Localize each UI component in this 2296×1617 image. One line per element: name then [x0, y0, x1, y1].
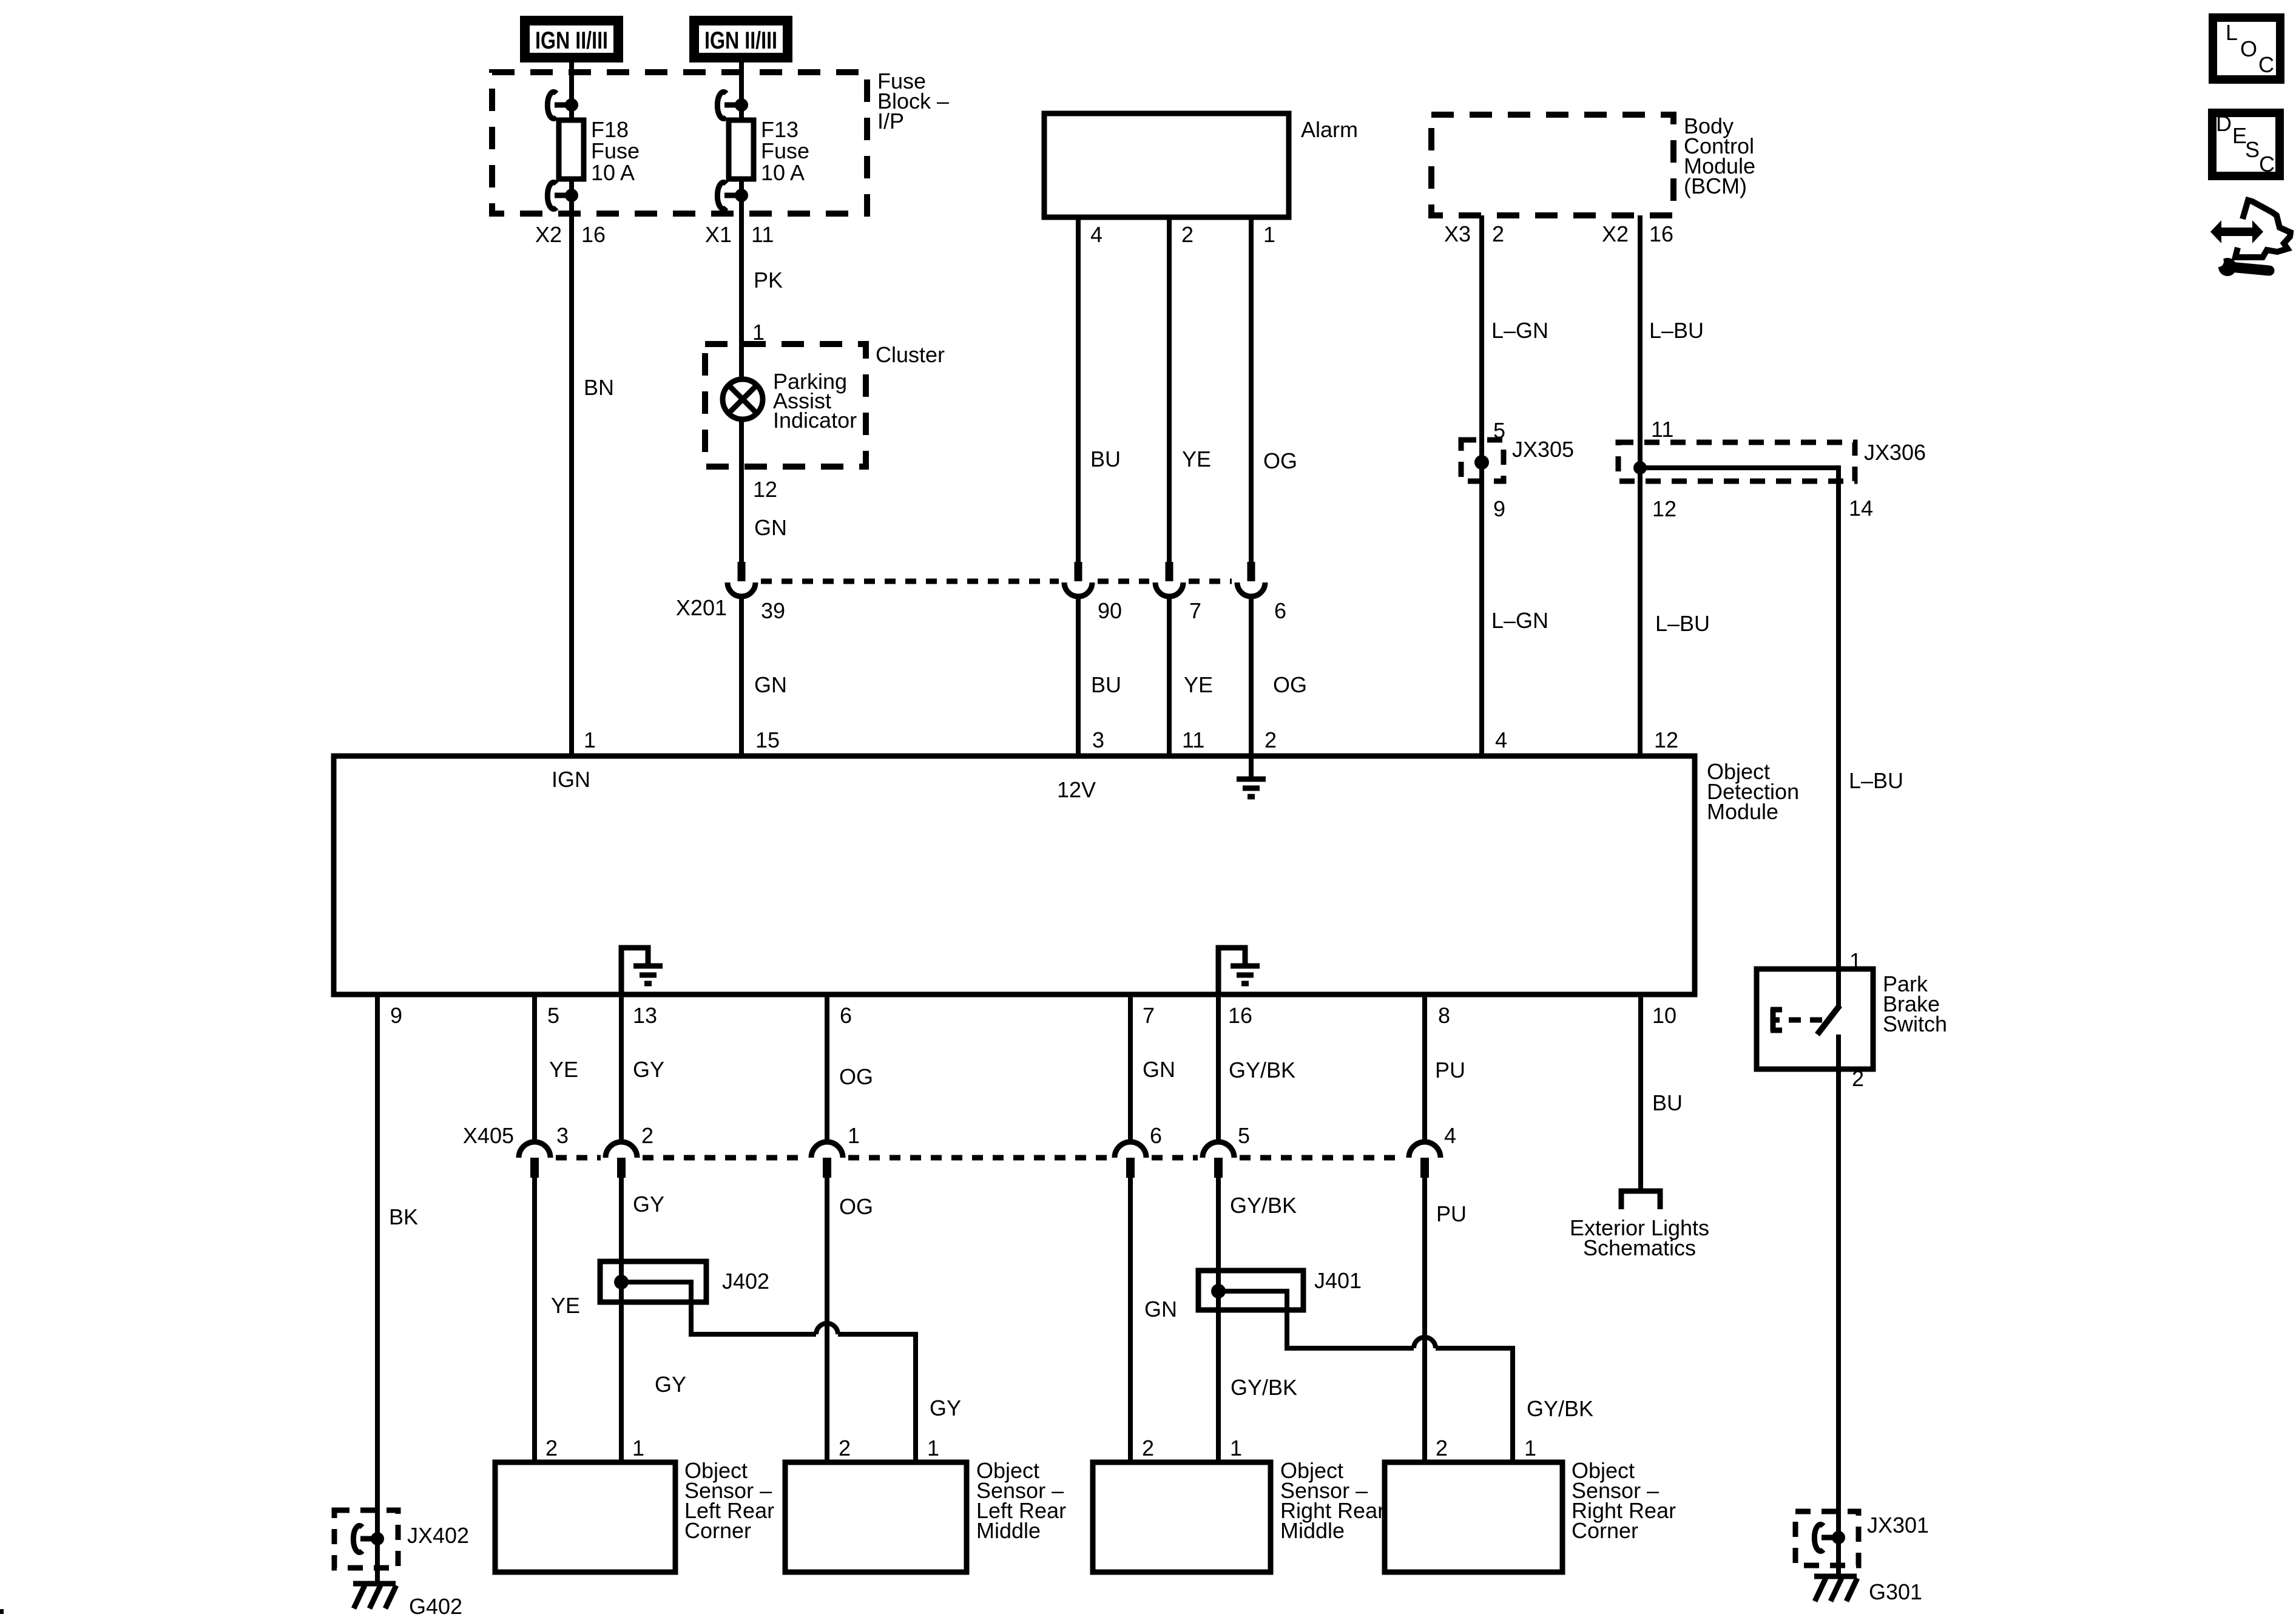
ground G301: [1814, 1576, 1922, 1604]
exterior lights schematics label: [1570, 1215, 1709, 1260]
svg-text:J402: J402: [722, 1269, 769, 1294]
svg-text:Switch: Switch: [1883, 1011, 1947, 1036]
svg-text:L–GN: L–GN: [1491, 318, 1548, 343]
in-line connector X201 junction pin 39: [728, 562, 755, 596]
svg-text:5: 5: [1238, 1123, 1250, 1148]
connector X201 junction pin 90: [1064, 562, 1122, 623]
fuse F18: [559, 120, 584, 179]
module pin 4 label: [1495, 727, 1507, 752]
svg-text:JX305: JX305: [1512, 437, 1574, 462]
JX306 pin 11 label: [1651, 417, 1673, 442]
parking assist indicator lamp: [723, 379, 763, 419]
svg-text:OG: OG: [1273, 672, 1307, 697]
wire lamp to cluster pin 12: [739, 419, 744, 562]
alarm module box: [1044, 113, 1358, 217]
svg-text:PU: PU: [1436, 1201, 1467, 1226]
svg-text:GY/BK: GY/BK: [1229, 1058, 1295, 1082]
svg-text:2: 2: [1852, 1066, 1864, 1091]
wire park brake switch to JX301: [1836, 1069, 1841, 1575]
cluster dashed outline: [705, 342, 945, 467]
svg-text:11: 11: [751, 222, 774, 247]
svg-text:GY/BK: GY/BK: [1527, 1396, 1593, 1421]
wire label GN: [754, 515, 787, 540]
object sensor left rear corner: [495, 1458, 774, 1572]
svg-text:X2: X2: [535, 222, 562, 247]
wire module pin 9 to JX402, label BK: [377, 994, 418, 1582]
power feed box IGN II/III (left): [525, 21, 618, 58]
svg-text:6: 6: [1274, 598, 1286, 623]
svg-text:16: 16: [1228, 1003, 1252, 1028]
module pin labels 3 11 2: [1092, 727, 1277, 752]
junction block JX402: [334, 1510, 469, 1568]
wire module pin 6 to X405, label OG: [827, 994, 873, 1143]
svg-text:2: 2: [1492, 221, 1504, 246]
wire X405 to sensor LR middle pin 2, label OG: [827, 1176, 873, 1462]
svg-text:C: C: [2259, 152, 2275, 177]
svg-text:4: 4: [1444, 1123, 1456, 1148]
splice J402: [600, 1261, 769, 1302]
module internal ground at pin 2: [1237, 756, 1266, 797]
svg-text:Indicator: Indicator: [773, 408, 857, 433]
splice J401: [1198, 1268, 1362, 1310]
svg-text:1: 1: [848, 1123, 860, 1148]
module internal label IGN: [552, 767, 590, 792]
wire X405 to splice J401, label GY/BK: [1218, 1176, 1297, 1462]
module pin 12 label: [1654, 727, 1678, 752]
svg-text:BN: BN: [584, 375, 614, 400]
svg-text:JX402: JX402: [407, 1523, 469, 1548]
svg-text:11: 11: [1651, 417, 1673, 442]
svg-text:BU: BU: [1652, 1090, 1683, 1115]
fuse F13: [729, 120, 754, 179]
svg-text:GN: GN: [754, 672, 787, 697]
connector X405 junction pin 2: [606, 1123, 653, 1178]
connector X201 junction pin 6: [1237, 562, 1286, 623]
svg-text:X3: X3: [1444, 221, 1471, 246]
svg-text:10: 10: [1652, 1003, 1676, 1028]
DESC nav icon: [2212, 111, 2280, 177]
body control module dashed outline: [1431, 115, 1673, 215]
wire label L-BU right side: [1849, 768, 1903, 793]
svg-text:14: 14: [1849, 496, 1873, 521]
park brake switch pin 1 label: [1849, 948, 1862, 973]
wire module pin 7 to X405, label GN: [1130, 994, 1175, 1143]
wire alarm pin 4, label BU: [1078, 217, 1121, 562]
wire module pin 8 to X405, label PU: [1425, 994, 1465, 1143]
svg-text:12V: 12V: [1057, 777, 1096, 802]
svg-text:YE: YE: [549, 1057, 578, 1082]
fuse F13 value label: [761, 117, 809, 185]
park brake switch box: [1757, 969, 1947, 1069]
wire alarm pin 1, label OG: [1251, 217, 1297, 562]
wire J401 branch to sensor RR corner pin 1, label GY/BK: [1218, 1291, 1593, 1462]
svg-text:IGN: IGN: [552, 767, 590, 792]
module pin 15 label: [755, 727, 780, 752]
svg-text:GY/BK: GY/BK: [1230, 1193, 1297, 1218]
clip terminal F18 bottom: [547, 183, 578, 209]
svg-text:L–BU: L–BU: [1849, 768, 1903, 793]
svg-text:X201: X201: [676, 595, 727, 620]
svg-text:2: 2: [1436, 1436, 1448, 1460]
svg-text:X405: X405: [463, 1123, 514, 1148]
svg-text:PK: PK: [754, 268, 783, 292]
svg-text:PU: PU: [1435, 1058, 1465, 1082]
svg-text:IGN II/III: IGN II/III: [535, 27, 608, 54]
wire JX306 branch to park brake switch: [1640, 468, 1838, 969]
svg-text:L: L: [2226, 20, 2238, 45]
wire X405 to sensor RR corner pin 2, label PU: [1425, 1176, 1467, 1462]
svg-text:BK: BK: [389, 1204, 418, 1229]
svg-text:GN: GN: [1143, 1057, 1175, 1082]
connector X405 label: [463, 1123, 514, 1148]
svg-text:IGN II/III: IGN II/III: [704, 27, 777, 54]
svg-text:Schematics: Schematics: [1583, 1235, 1696, 1260]
fuse F18 value label: [591, 117, 640, 185]
svg-text:D: D: [2216, 111, 2232, 136]
wire J402 branch to sensor LR middle pin 1, label GY: [621, 1282, 961, 1462]
wire IGN feed to fuse F18: [569, 58, 574, 120]
svg-text:L–BU: L–BU: [1649, 318, 1704, 343]
svg-text:Fuse: Fuse: [591, 138, 640, 163]
svg-text:Middle: Middle: [1280, 1518, 1345, 1543]
object sensor left rear middle: [785, 1458, 1066, 1572]
fuse block label: [877, 69, 949, 133]
wire label L-GN lower: [1491, 608, 1548, 633]
svg-text:GY: GY: [633, 1057, 664, 1082]
svg-text:OG: OG: [839, 1194, 873, 1219]
wire F18 to connector X2 pin 16: [569, 179, 574, 756]
svg-text:Middle: Middle: [976, 1518, 1041, 1543]
svg-text:1: 1: [752, 320, 765, 345]
svg-text:G301: G301: [1869, 1579, 1922, 1604]
svg-text:BU: BU: [1090, 447, 1121, 471]
power feed box IGN II/III (right): [694, 21, 788, 58]
svg-text:OG: OG: [1263, 448, 1297, 473]
park brake switch actuator E and dashes: [1771, 1008, 1829, 1031]
svg-text:2: 2: [1142, 1436, 1154, 1460]
svg-text:G402: G402: [409, 1594, 462, 1617]
svg-text:9: 9: [1493, 496, 1505, 521]
svg-text:X2: X2: [1602, 221, 1629, 246]
svg-text:12: 12: [1654, 727, 1678, 752]
svg-text:10 A: 10 A: [591, 160, 635, 185]
wire module pin 16 to X405, label GY/BK: [1218, 994, 1295, 1143]
fuse block I/P dashed outline: [492, 72, 867, 214]
svg-text:5: 5: [547, 1003, 559, 1028]
connector X405 junction pin 1: [811, 1123, 860, 1178]
svg-text:Fuse: Fuse: [761, 138, 809, 163]
svg-text:12: 12: [1652, 496, 1676, 521]
svg-text:7: 7: [1143, 1003, 1155, 1028]
connector X201 dashed line: [761, 579, 1232, 584]
svg-text:1: 1: [1524, 1436, 1536, 1460]
JX306 pin labels 12 14: [1652, 496, 1873, 521]
module bottom pin labels: [390, 1003, 1676, 1028]
svg-text:2: 2: [1264, 727, 1277, 752]
svg-text:15: 15: [755, 727, 780, 752]
parking assist indicator label: [773, 369, 857, 433]
connector X405 junction pin 5: [1203, 1123, 1250, 1178]
svg-text:16: 16: [581, 222, 606, 247]
repair instructions hand icon: [2210, 200, 2291, 276]
svg-text:S: S: [2245, 137, 2260, 162]
wire X201 to module pin 11, label YE: [1169, 595, 1213, 756]
svg-text:10 A: 10 A: [761, 160, 805, 185]
clip terminal F18 top: [547, 92, 578, 119]
svg-text:4: 4: [1090, 222, 1102, 247]
connector X405 dashed line: [556, 1155, 1404, 1161]
svg-text:GY: GY: [655, 1372, 686, 1397]
svg-text:39: 39: [761, 598, 785, 623]
junction block JX301: [1795, 1511, 1929, 1565]
svg-text:O: O: [2240, 36, 2257, 61]
wire X201 to module pin 15, label GN: [741, 595, 787, 756]
connector X405 junction pin 6: [1115, 1123, 1162, 1178]
svg-text:1: 1: [632, 1436, 644, 1460]
svg-text:GN: GN: [1144, 1297, 1177, 1322]
wire IGN feed to fuse F13: [739, 58, 744, 120]
park brake switch contacts and blade: [1817, 969, 1840, 1069]
svg-text:4: 4: [1495, 727, 1507, 752]
clip terminal F13 bottom: [717, 183, 748, 209]
junction block JX305: [1461, 437, 1574, 481]
wire label L-BU lower: [1655, 611, 1710, 636]
connector X405 junction pin 3: [519, 1123, 569, 1178]
svg-text:GY: GY: [930, 1396, 961, 1420]
svg-text:2: 2: [839, 1436, 851, 1460]
object detection module box: [334, 756, 1695, 994]
svg-text:2: 2: [545, 1436, 558, 1460]
svg-text:90: 90: [1098, 598, 1122, 623]
module internal ground near pin 13: [621, 948, 663, 994]
connector X405 junction pin 4: [1409, 1123, 1456, 1178]
svg-text:L–GN: L–GN: [1491, 608, 1548, 633]
svg-text:13: 13: [633, 1003, 657, 1028]
svg-text:8: 8: [1438, 1003, 1450, 1028]
park brake switch pin 2 label: [1852, 1066, 1864, 1091]
module pin 1 label: [584, 727, 596, 752]
svg-text:Cluster: Cluster: [876, 342, 945, 367]
svg-text:J401: J401: [1314, 1268, 1362, 1293]
connector X201 label: [676, 595, 785, 623]
svg-text:Alarm: Alarm: [1301, 117, 1358, 142]
wire X201 to module pin 2, label OG: [1251, 595, 1307, 756]
svg-text:2: 2: [641, 1123, 653, 1148]
connector label X2 | 16: [535, 222, 606, 247]
object sensor right rear middle: [1093, 1458, 1385, 1572]
sensor pin labels 2 1: [545, 1436, 1536, 1460]
wire X405 to sensor LR corner pin 2, label YE: [535, 1176, 580, 1462]
svg-text:1: 1: [1263, 222, 1275, 247]
svg-text:YE: YE: [1182, 447, 1211, 471]
svg-text:JX301: JX301: [1867, 1513, 1929, 1538]
svg-text:3: 3: [1092, 727, 1104, 752]
alarm pin labels 4 2 1: [1090, 222, 1275, 247]
svg-text:YE: YE: [1184, 672, 1213, 697]
clip terminal F13 top: [717, 92, 748, 119]
wire module pin 10 to off-page, label BU: [1641, 994, 1683, 1190]
svg-text:9: 9: [390, 1003, 402, 1028]
wire X405 to sensor RR middle pin 2, label GN: [1130, 1176, 1177, 1462]
module internal label 12V: [1057, 777, 1096, 802]
svg-text:2: 2: [1181, 222, 1194, 247]
svg-text:L–BU: L–BU: [1655, 611, 1710, 636]
body control module label: [1684, 113, 1755, 198]
JX305 pin 9 label: [1493, 496, 1505, 521]
svg-text:GY: GY: [633, 1192, 664, 1217]
svg-text:C: C: [2258, 52, 2274, 77]
svg-text:1: 1: [1230, 1436, 1242, 1460]
junction block JX306: [1618, 440, 1926, 481]
wire F13 to cluster, label PK: [741, 179, 783, 379]
wire BCM X3-2 to JX305, label L-GN: [1482, 215, 1548, 756]
LOC nav icon: [2213, 18, 2280, 79]
wire label BN: [584, 375, 614, 400]
object detection module label: [1707, 759, 1799, 824]
wire module pin 13 to X405, label GY: [621, 994, 664, 1143]
svg-text:BU: BU: [1091, 672, 1121, 697]
svg-text:Corner: Corner: [684, 1518, 751, 1543]
wire X201 to module pin 3, label BU: [1078, 595, 1121, 756]
svg-text:6: 6: [840, 1003, 852, 1028]
svg-text:12: 12: [753, 477, 777, 502]
svg-text:Module: Module: [1707, 799, 1778, 824]
svg-text:7: 7: [1189, 598, 1201, 623]
module internal ground near pin 16: [1218, 948, 1260, 994]
svg-text:I/P: I/P: [877, 109, 904, 133]
ground G402: [353, 1584, 462, 1617]
JX305 pin 5 label: [1493, 418, 1505, 443]
svg-text:YE: YE: [551, 1293, 580, 1318]
svg-text:6: 6: [1150, 1123, 1162, 1148]
cluster pin 12 label: [753, 477, 777, 502]
svg-text:X1: X1: [705, 222, 732, 247]
svg-text:3: 3: [556, 1123, 569, 1148]
svg-text:1: 1: [584, 727, 596, 752]
connector label X1 | 11: [705, 222, 774, 247]
svg-text:JX306: JX306: [1864, 440, 1926, 465]
svg-text:(BCM): (BCM): [1684, 174, 1747, 198]
svg-text:Corner: Corner: [1572, 1518, 1638, 1543]
connector X201 junction pin 7: [1155, 562, 1201, 623]
off-page connector to exterior lights schematics: [1621, 1191, 1660, 1209]
wire X405 to splice J402, label GY: [621, 1176, 686, 1462]
page corner mark: [0, 1609, 4, 1614]
svg-text:16: 16: [1649, 221, 1673, 246]
svg-text:11: 11: [1182, 727, 1204, 752]
wire module pin 5 to X405, label YE: [535, 994, 578, 1143]
BCM connector labels X3|2 X2|16: [1444, 221, 1673, 246]
svg-text:GY/BK: GY/BK: [1231, 1375, 1297, 1400]
svg-text:1: 1: [927, 1436, 939, 1460]
svg-text:OG: OG: [839, 1064, 873, 1089]
wire BCM X2-16 to JX306, label L-BU: [1640, 215, 1704, 756]
wire alarm pin 2, label YE: [1169, 217, 1211, 562]
cluster pin 1 label: [752, 320, 765, 345]
object sensor right rear corner: [1385, 1458, 1676, 1572]
svg-text:GN: GN: [754, 515, 787, 540]
